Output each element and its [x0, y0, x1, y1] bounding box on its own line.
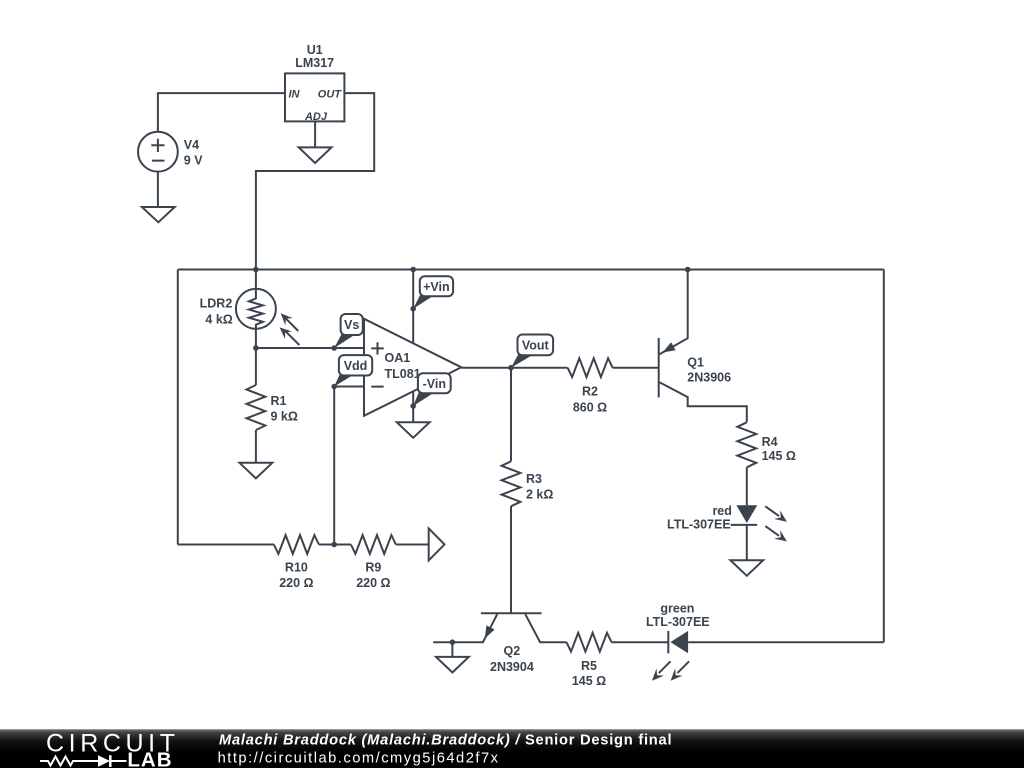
resistor R4: [737, 422, 796, 505]
resistor R9: [334, 535, 429, 590]
svg-text:Vout: Vout: [522, 339, 550, 353]
node Q2 emitter / ground: [450, 639, 456, 645]
svg-text:R3: R3: [526, 472, 542, 486]
transistor Q2 2N3904: [433, 613, 566, 674]
svg-text:U1: U1: [307, 43, 323, 57]
logo diode glyph: [81, 760, 127, 762]
svg-text:220 Ω: 220 Ω: [356, 576, 390, 590]
wire bottom left to R10: [178, 544, 274, 546]
svg-text:Q1: Q1: [687, 356, 704, 370]
svg-text:2 kΩ: 2 kΩ: [526, 488, 553, 502]
svg-text:860 Ω: 860 Ω: [573, 400, 607, 414]
ground (red LED): [730, 560, 763, 576]
svg-text:9 V: 9 V: [184, 153, 203, 167]
flag Vout: [508, 335, 553, 371]
resistor R5: [567, 633, 669, 688]
svg-text:OA1: OA1: [385, 351, 411, 365]
ground (V4): [142, 207, 175, 222]
node top rail / Q1 emitter: [685, 267, 691, 273]
svg-text:Vs: Vs: [344, 318, 359, 332]
svg-text:LTL-307EE: LTL-307EE: [646, 615, 710, 629]
svg-text:R1: R1: [271, 394, 287, 408]
svg-text:-Vin: -Vin: [423, 377, 446, 391]
svg-text:Q2: Q2: [504, 644, 521, 658]
wire left edge of loop: [177, 270, 179, 545]
node top rail / op-amp supply: [410, 267, 416, 273]
svg-text:145 Ω: 145 Ω: [572, 674, 606, 688]
wire op-amp positive supply: [412, 270, 414, 344]
voltage source V4: [138, 132, 203, 172]
svg-text:red: red: [712, 504, 731, 518]
svg-text:ADJ: ADJ: [304, 111, 328, 123]
wire op-amp minus input: [334, 386, 364, 388]
ground (Q2 emitter): [436, 657, 469, 673]
wire top rail: [178, 269, 884, 271]
svg-text:Malachi Braddock (Malachi.Brad: Malachi Braddock (Malachi.Braddock) / Se…: [219, 733, 672, 749]
logo resistor glyph: [40, 757, 81, 766]
node LDR / R1 / op-amp +in: [253, 345, 259, 351]
svg-text:LM317: LM317: [295, 56, 334, 70]
port triangle at R9: [429, 528, 445, 560]
svg-text:LTL-307EE: LTL-307EE: [667, 518, 731, 532]
flag -Vin: [410, 373, 450, 409]
wire Q2 emitter ground lead: [451, 642, 453, 657]
node top rail / LDR: [253, 267, 259, 273]
svg-text:R2: R2: [582, 385, 598, 399]
photoresistor LDR2: [200, 270, 300, 349]
svg-text:LAB: LAB: [127, 749, 172, 768]
op-amp OA1 TL081: [364, 319, 461, 416]
footer bar: [0, 729, 1024, 768]
wire R3 top from Vout node: [510, 368, 512, 462]
node R10/R9/Vdd junction: [331, 542, 337, 548]
svg-text:OUT: OUT: [318, 88, 343, 100]
ground (R1): [240, 463, 273, 479]
svg-text:R10: R10: [285, 561, 308, 575]
svg-text:2N3904: 2N3904: [490, 660, 534, 674]
svg-text:220 Ω: 220 Ω: [279, 576, 313, 590]
wire op-amp output to R2: [461, 367, 567, 369]
wire U1 ADJ lead: [314, 121, 316, 147]
resistor R10: [274, 535, 334, 590]
svg-text:TL081: TL081: [385, 367, 421, 381]
svg-text:R5: R5: [581, 659, 597, 673]
ground (U1 ADJ): [299, 147, 332, 163]
svg-text:V4: V4: [184, 138, 199, 152]
LDR light arrow 2: [285, 331, 299, 345]
svg-text:R9: R9: [365, 561, 381, 575]
LED red LTL-307EE: [667, 504, 787, 560]
svg-text:green: green: [660, 602, 694, 616]
flag Vdd: [331, 355, 372, 389]
svg-text:LDR2: LDR2: [200, 297, 233, 311]
flag +Vin: [410, 276, 453, 311]
flag Vs: [331, 314, 362, 351]
green LED light arrow 2: [677, 661, 689, 673]
green LED light arrow 1: [659, 661, 671, 673]
red LED light arrow 2: [765, 526, 779, 536]
wire V4 minus lead: [157, 172, 159, 207]
resistor R3: [502, 461, 554, 613]
LED green LTL-307EE: [646, 602, 884, 681]
resistor R2: [568, 358, 659, 414]
LDR light arrow 1: [284, 317, 298, 331]
svg-text:145 Ω: 145 Ω: [762, 449, 796, 463]
wire U1 OUT loop to LDR top: [256, 93, 374, 269]
transistor Q1 2N3906: [659, 270, 747, 423]
svg-text:http://circuitlab.com/cmyg5j64: http://circuitlab.com/cmyg5j64d2f7x: [218, 750, 500, 766]
svg-text:+Vin: +Vin: [423, 280, 450, 294]
wire V4 plus to U1 IN: [158, 93, 285, 132]
wire right edge of loop: [883, 270, 885, 643]
svg-text:Vdd: Vdd: [344, 359, 368, 373]
svg-text:2N3906: 2N3906: [687, 371, 731, 385]
red LED light arrow 1: [765, 506, 779, 516]
wire LDR node to op-amp plus input: [256, 347, 364, 349]
wire op-amp negative supply lead: [412, 391, 414, 422]
svg-text:R4: R4: [762, 435, 778, 449]
svg-text:9 kΩ: 9 kΩ: [271, 410, 298, 424]
resistor R1: [246, 348, 297, 463]
svg-text:IN: IN: [289, 88, 301, 100]
op-amp U1 LM317 body: [285, 43, 344, 123]
wire Vdd node down to R10/R9 junction: [333, 387, 335, 545]
svg-text:4 kΩ: 4 kΩ: [205, 313, 232, 327]
ground (op-amp): [397, 422, 430, 438]
